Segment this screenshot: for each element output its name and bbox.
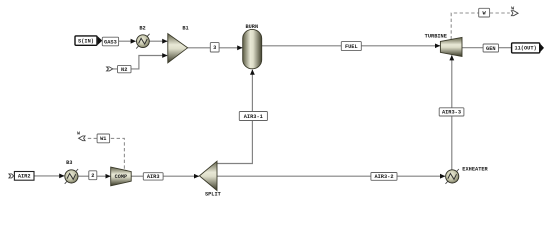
svg-text:EXHEATER: EXHEATER xyxy=(462,167,488,173)
svg-text:TURBINE: TURBINE xyxy=(425,33,447,39)
wire dashed work stream from TURBINE top to W box and out xyxy=(451,13,510,39)
stream label box AIR3-1 xyxy=(239,112,267,121)
work stream label box W1 xyxy=(97,134,110,143)
feed connector S(IN) with solid arrow xyxy=(75,36,102,45)
svg-text:FUEL: FUEL xyxy=(345,44,358,50)
heater B2 xyxy=(136,34,149,49)
svg-text:AIR2: AIR2 xyxy=(18,174,31,180)
wire dashed work stream from COMP top to W1 box and out xyxy=(85,138,124,168)
svg-text:AIR3-2: AIR3-2 xyxy=(374,174,393,180)
svg-text:N2: N2 xyxy=(121,67,127,73)
stream label box FUEL xyxy=(341,42,361,51)
label BURN xyxy=(245,24,258,30)
svg-text:AIR3-3: AIR3-3 xyxy=(442,110,461,116)
reactor BURN vessel xyxy=(243,29,262,68)
stream label box AIR3 xyxy=(143,173,163,181)
wire GAS3 feed box to heater B2 xyxy=(119,40,136,42)
feed label box AIR2 xyxy=(14,172,34,181)
stream label box AIR3-3 xyxy=(439,108,464,116)
svg-text:B2: B2 xyxy=(139,26,145,32)
svg-text:2: 2 xyxy=(91,173,94,179)
stream label box 2 xyxy=(89,171,97,180)
svg-text:3: 3 xyxy=(213,45,216,51)
wire reactor BURN outlet to FUEL box xyxy=(262,45,342,47)
work outlet open arrow W (top right) xyxy=(511,5,518,15)
svg-text:GAS3: GAS3 xyxy=(104,39,117,45)
wire stream 3 box to reactor BURN inlet xyxy=(219,47,242,49)
svg-text:AIR3: AIR3 xyxy=(147,174,160,180)
wire stream 2 box to compressor COMP inlet xyxy=(97,175,111,177)
wire GEN box to 11(OUT) product box xyxy=(499,47,512,49)
svg-text:BURN: BURN xyxy=(245,24,258,30)
splitter SPLIT xyxy=(199,161,217,190)
wire heater B3 to stream 2 box xyxy=(78,175,89,177)
svg-text:SPLIT: SPLIT xyxy=(205,192,222,198)
wire FUEL box to TURBINE inlet xyxy=(361,45,440,47)
product connector 11(OUT) with solid arrow xyxy=(512,43,544,53)
wire N2 feed to mixer B1 lower inlet xyxy=(113,56,168,69)
label B1 xyxy=(182,26,188,32)
wire EXHEATER top up to TURBINE bottom (stream AIR3-3) xyxy=(451,55,453,169)
wire mixer B1 outlet to stream 3 box xyxy=(188,47,211,49)
stream label box 3 xyxy=(210,43,219,52)
stream label box AIR3-2 xyxy=(371,173,397,181)
svg-text:W: W xyxy=(77,131,80,137)
svg-text:B3: B3 xyxy=(66,160,72,166)
wire heater B2 to mixer B1 upper inlet xyxy=(149,40,167,42)
wire SPLIT right outlet to EXHEATER (stream AIR3-2) xyxy=(217,175,445,177)
svg-text:11(OUT): 11(OUT) xyxy=(514,46,536,52)
stream label box GEN xyxy=(483,44,498,52)
svg-text:AIR3-1: AIR3-1 xyxy=(244,114,263,120)
svg-text:B1: B1 xyxy=(182,26,188,32)
wire SPLIT upper outlet up to reactor BURN bottom (stream AIR3-1) xyxy=(217,70,252,164)
svg-text:GEN: GEN xyxy=(486,46,496,52)
feed open arrow for AIR2 xyxy=(9,174,14,178)
label EXHEATER xyxy=(462,167,488,173)
heat exchanger EXHEATER xyxy=(446,169,459,184)
compressor COMP xyxy=(111,167,132,186)
label TURBINE xyxy=(425,33,447,39)
wire AIR3 box to splitter SPLIT inlet xyxy=(163,175,199,177)
label B3 xyxy=(66,160,72,166)
heater B3 xyxy=(65,169,78,184)
stream label box N2 xyxy=(118,65,132,73)
wire TURBINE outlet to GEN box xyxy=(462,47,483,49)
svg-text:S(IN): S(IN) xyxy=(78,39,94,45)
turbine TURBINE xyxy=(440,37,462,56)
label B2 xyxy=(139,26,145,32)
stream label box GAS3 xyxy=(102,37,118,46)
work stream label box W xyxy=(479,8,490,17)
label SPLIT xyxy=(205,192,222,198)
mixer B1 xyxy=(168,34,188,63)
work outlet open arrow W (left, points left) xyxy=(77,131,85,141)
svg-text:W: W xyxy=(511,5,514,11)
svg-text:W1: W1 xyxy=(100,136,106,142)
wire AIR2 feed box to heater B3 xyxy=(34,175,64,177)
svg-text:COMP: COMP xyxy=(115,174,127,180)
wire compressor COMP outlet to AIR3 box xyxy=(131,175,143,177)
feed open arrow for N2 xyxy=(107,67,113,71)
